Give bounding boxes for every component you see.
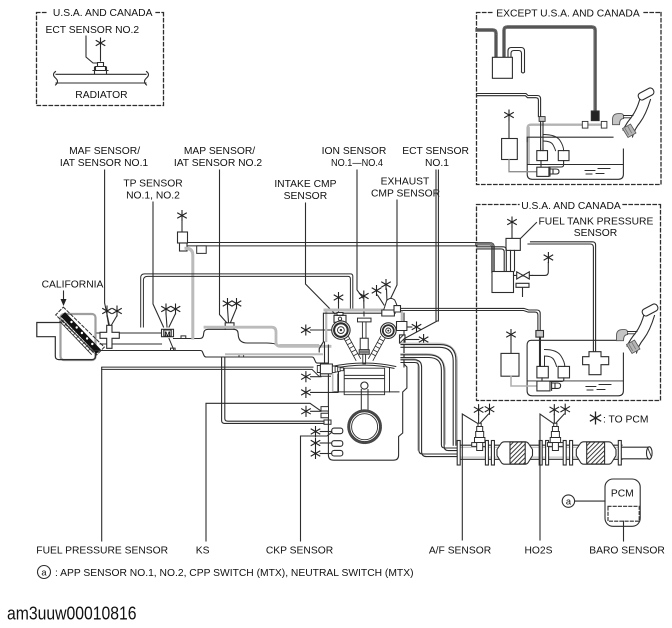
vacuum pipe manifold to valve cover [141, 274, 353, 327]
HO2S bung [547, 443, 563, 447]
svg-text:INTAKE CMP: INTAKE CMP [274, 179, 336, 190]
asterisk filter (middle) [507, 330, 516, 340]
gray line filter to pump [509, 160, 537, 172]
breather elbow gray (middle) [617, 330, 628, 341]
A/F sensor body [475, 423, 485, 450]
ion sensor stack [358, 318, 372, 322]
svg-text:: APP SENSOR NO.1, NO.2, CPP S: : APP SENSOR NO.1, NO.2, CPP SWITCH (MTX… [55, 568, 414, 579]
catalytic converter 1 [497, 442, 533, 464]
head right outline [395, 305, 404, 367]
asterisk FTP [508, 217, 517, 227]
pump module plus-shape [583, 352, 609, 375]
air cleaner body (gray) [61, 314, 96, 360]
FTP long pipe to pump module [528, 242, 596, 352]
vent pipe couplers [582, 121, 588, 128]
piston [344, 368, 384, 395]
gray hose along lower duct right [226, 353, 322, 355]
svg-text:CALIFORNIA: CALIFORNIA [42, 280, 104, 291]
svg-text:: TO PCM: : TO PCM [603, 414, 648, 425]
filler cap [637, 87, 655, 101]
intake duct air cleaner to throttle [97, 333, 162, 344]
pipes to valves [541, 337, 565, 366]
connecting rod [361, 390, 368, 411]
asterisk [96, 38, 105, 48]
canister (top right box) [492, 57, 512, 78]
pump fork (middle) [552, 382, 561, 391]
flange single [618, 441, 621, 466]
pipe engine to middle box (EVAP) [400, 308, 477, 310]
exhaust CMP sensor (ringed circle) [381, 323, 397, 339]
svg-text:EXHAUST: EXHAUST [381, 177, 430, 188]
leader FTP label [521, 223, 537, 239]
leader BARO [623, 521, 625, 541]
fuel surface line (middle) [528, 380, 623, 382]
MAF sensor plus-shape [100, 325, 119, 348]
braided hose A (to canister) [477, 30, 496, 57]
throttle out line [174, 329, 319, 345]
cylinder walls [339, 368, 390, 392]
gray hose solenoid to manifold [186, 248, 193, 338]
valve cover and head outline [319, 313, 395, 364]
leader [508, 120, 510, 139]
valve stems down [542, 378, 564, 382]
filler cap (middle) [641, 303, 659, 317]
dashed box EXCEPT U.S.A. AND CANADA [477, 13, 662, 185]
catalytic converter 2 [576, 442, 616, 464]
BARO dashed box [608, 506, 639, 521]
air inlet snout [37, 323, 96, 360]
thin pipe from left edge to tank fitting [477, 94, 541, 117]
purge pipe down from lower duct [222, 357, 324, 423]
asterisk purge solenoid [178, 211, 187, 221]
svg-text:MAF SENSOR/: MAF SENSOR/ [69, 146, 140, 157]
pipes FTP sensor down to canister [511, 250, 515, 271]
svg-text:HO2S: HO2S [524, 546, 552, 557]
leader HO2S label [540, 414, 554, 540]
exhaust manifold tubes [401, 343, 457, 444]
svg-text:NO.1—NO.4: NO.1—NO.4 [331, 158, 383, 169]
svg-text:EXCEPT U.S.A. AND CANADA: EXCEPT U.S.A. AND CANADA [496, 9, 640, 20]
TP double asterisk [162, 304, 171, 314]
intake CMP sensor (ringed circle) [332, 321, 350, 339]
ECT sensor asterisk [419, 335, 428, 345]
leader FUEL PRESSURE SENSOR [101, 368, 103, 542]
left elbow connector (fuel rail) [317, 366, 320, 373]
engine left asterisks [302, 372, 311, 382]
wrist pin [361, 382, 368, 389]
svg-text:CKP SENSOR: CKP SENSOR [266, 546, 333, 557]
svg-text:RADIATOR: RADIATOR [75, 90, 127, 101]
flange at start [457, 441, 460, 466]
MAP fitting on manifold [225, 323, 234, 330]
fuel level marks [585, 169, 610, 175]
pump rect (middle) [537, 381, 550, 391]
svg-text:ION SENSOR: ION SENSOR [322, 146, 387, 157]
svg-text:NO.1: NO.1 [425, 158, 449, 169]
fuel tank (middle box) [527, 340, 623, 396]
svg-text:ECT SENSOR NO.2: ECT SENSOR NO.2 [46, 25, 140, 36]
injector connector rects [332, 428, 343, 434]
breather tube [624, 116, 633, 118]
braided hose B (canister to tank fitting) [504, 27, 595, 111]
dashed box U.S.A. AND CANADA (radiator) [37, 13, 164, 106]
leader A/F label [462, 414, 478, 540]
MAF double asterisk [103, 306, 112, 316]
flange pair 1 [485, 441, 488, 466]
float disc under valve [516, 283, 529, 296]
dashed box U.S.A. AND CANADA (fuel tank) [477, 205, 661, 401]
intake cam asterisk (left) [302, 325, 311, 335]
exhaust cam asterisks [372, 286, 381, 296]
combustion chamber arcs [332, 363, 396, 368]
MAP double asterisk [223, 299, 232, 309]
svg-text:SENSOR: SENSOR [284, 191, 328, 202]
svg-text:A/F SENSOR: A/F SENSOR [429, 546, 491, 557]
neck base wedge (middle) [627, 340, 641, 354]
leader ECT sensor no.2 [86, 36, 97, 63]
asterisk above valve pipe [544, 253, 553, 263]
FTP sensor box [506, 238, 520, 250]
MAF diagonal element (california) [56, 307, 105, 355]
leader ION [357, 170, 363, 298]
leader KS [206, 403, 321, 541]
intake cam asterisk (above) [334, 293, 343, 303]
valve 2 in tank [558, 151, 569, 161]
PCM box [605, 479, 640, 526]
svg-text:BARO SENSOR: BARO SENSOR [589, 546, 665, 557]
pipe from engine (lower) entering box [477, 308, 540, 330]
ECT bracket [397, 322, 407, 331]
leader FTP asterisk [511, 227, 513, 238]
clip tabs on lower duct [171, 348, 244, 357]
TP leader line to M [169, 339, 174, 351]
gray hose along manifold [205, 327, 330, 346]
leader ECT no.1 (double) [406, 170, 439, 338]
breather tube (middle) [628, 332, 637, 334]
fuel pipe from left [102, 367, 313, 369]
check valve fitting on purge pipe [197, 246, 207, 254]
radiator [56, 74, 146, 83]
svg-text:PCM: PCM [611, 488, 634, 499]
tailpipe [622, 447, 648, 459]
purge solenoid valve [178, 232, 188, 243]
circled a [562, 495, 574, 507]
EVAP nipple on head right [394, 306, 401, 312]
circled a footnote [38, 566, 51, 579]
leader TP [153, 202, 164, 327]
leader MAP [220, 170, 227, 323]
filler neck [623, 97, 651, 138]
filter box in tank [502, 139, 518, 160]
svg-text:FUEL PRESSURE SENSOR: FUEL PRESSURE SENSOR [36, 546, 168, 557]
svg-text:am3uuw00010816: am3uuw00010816 [7, 604, 137, 624]
breather elbow (gray) [613, 114, 624, 125]
filler neck (middle) [627, 313, 655, 354]
neck base wedge (hatched gray) [623, 124, 637, 138]
ECT sensor no.2 on radiator [93, 63, 108, 75]
svg-text:CMP SENSOR: CMP SENSOR [371, 189, 440, 200]
svg-text:a: a [41, 568, 47, 578]
crankcase divider [334, 391, 399, 393]
svg-text:ECT SENSOR: ECT SENSOR [402, 146, 469, 157]
pump fork [550, 168, 559, 177]
flange pair 2 [539, 441, 542, 466]
svg-text:IAT SENSOR NO.1: IAT SENSOR NO.1 [60, 158, 149, 169]
exhaust pipe [458, 445, 622, 459]
leader INTAKE CMP [306, 203, 336, 314]
svg-text:KS: KS [196, 546, 210, 557]
HO2S sensor body [550, 423, 560, 450]
asterisk TO PCM [590, 412, 600, 424]
valve (bowtie) right of canister [514, 272, 533, 279]
svg-text:TP SENSOR: TP SENSOR [123, 179, 182, 190]
gray line filter to pump (middle) [511, 376, 537, 386]
clip tab on throttle line [181, 336, 186, 339]
ION asterisk [360, 291, 369, 301]
leader CKP [301, 433, 332, 542]
svg-text:a: a [566, 497, 572, 507]
svg-text:U.S.A. AND CANADA: U.S.A. AND CANADA [53, 8, 153, 19]
exhaust valve (slanted) [369, 337, 386, 361]
fuel tank (top right box) [527, 137, 623, 179]
fitting at engine left (purge) [324, 420, 331, 424]
valve 1 (middle tank) [537, 366, 548, 378]
engine block outline [328, 340, 407, 460]
valve 1 in tank [537, 151, 548, 161]
svg-text:MAP SENSOR/: MAP SENSOR/ [184, 146, 255, 157]
tabs on block left (KS) [321, 407, 329, 418]
svg-text:IAT SENSOR NO.2: IAT SENSOR NO.2 [174, 158, 263, 169]
asterisk (canister filter) [505, 110, 514, 120]
svg-text:M: M [164, 329, 170, 338]
svg-text:FUEL TANK PRESSURE: FUEL TANK PRESSURE [539, 216, 654, 227]
svg-text:NO.1, NO.2: NO.1, NO.2 [126, 191, 180, 202]
canister vent pipe [508, 48, 525, 74]
CALIFORNIA arrow [63, 291, 65, 300]
svg-text:SENSOR: SENSOR [574, 228, 618, 239]
black fitting at vent pipe [591, 111, 599, 121]
ECT bracket asterisk [412, 322, 421, 332]
pipe solenoid to middle box (purge) [188, 243, 478, 246]
leader EXHAUST CMP [389, 200, 398, 303]
fuel surface line [528, 164, 623, 166]
gray fitting on tank top [536, 331, 544, 338]
intake CMP sensor connector [334, 313, 346, 323]
filter box (middle) [501, 353, 519, 376]
valve stems to pump [541, 161, 564, 167]
thin pipe into canister [477, 247, 506, 271]
intake valve (slanted) [344, 337, 361, 361]
A/F bung [472, 443, 488, 447]
lower duct (resonator) [95, 351, 328, 364]
svg-text:U.S.A. AND CANADA: U.S.A. AND CANADA [521, 201, 621, 212]
braided hose into box (purge line) [477, 244, 493, 271]
pipe to valve1 [541, 149, 543, 151]
HO2S asterisks [550, 405, 559, 415]
gray harness on valve cover [325, 309, 399, 312]
leader MAF [105, 170, 110, 326]
exhaust CMP funnel connector [384, 298, 397, 312]
flange pair 3 [563, 441, 566, 466]
ECT sensor no.1 body [400, 335, 406, 343]
A/F asterisks [474, 405, 483, 415]
crank sprocket [350, 412, 380, 442]
injector asterisks [311, 427, 320, 437]
vent pipe (gray) across tank top [528, 125, 604, 141]
valve 2 (middle tank) [558, 366, 569, 378]
asterisk leader [100, 49, 102, 62]
canister (middle box) [492, 272, 514, 293]
pump module rect [537, 167, 549, 176]
gray fitting [539, 117, 545, 122]
arc branch to valve 2 [543, 135, 564, 151]
throttle body M [162, 329, 174, 336]
fuel level marks (middle) [586, 385, 611, 391]
